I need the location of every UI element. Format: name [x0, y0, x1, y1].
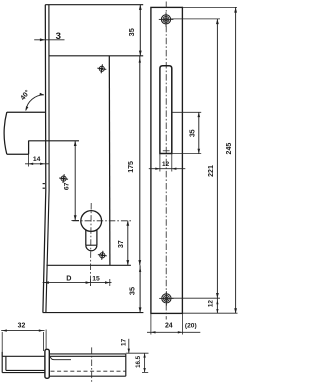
- 24 dim right extension: [181, 313, 183, 334]
- bottom view: case bottom edge: [49, 375, 126, 377]
- euro profile cylinder stem right: [96, 230, 98, 245]
- bottom view: bolt inner left edge: [5, 356, 7, 370]
- dimension 14 extension line: [28, 154, 30, 166]
- 40 degree arc arrow: [26, 95, 44, 111]
- svg-text:24: 24: [165, 323, 173, 330]
- dimension 37 line: [127, 221, 129, 266]
- svg-text:37: 37: [118, 240, 125, 248]
- dimension D/15 tick at case edge: [109, 279, 111, 286]
- dimension 35 slot line: [198, 112, 200, 153]
- swing bolt bottom edge: [7, 153, 29, 155]
- svg-text:12: 12: [162, 161, 170, 168]
- dimension 17 line: [128, 339, 130, 353]
- swing bolt top edge: [7, 111, 45, 113]
- left view: lock case top edge / extension: [49, 55, 144, 57]
- svg-text:35: 35: [190, 129, 197, 137]
- 32 dim right extension: [42, 332, 44, 351]
- slot centre tick: [163, 150, 170, 152]
- screw hole middle (case): [97, 250, 107, 260]
- 221 dim top extension: [171, 18, 220, 20]
- bottom view: bolt outer bottom edge: [2, 372, 45, 374]
- svg-text:175: 175: [128, 161, 135, 173]
- euro profile cylinder stem chord: [86, 244, 97, 246]
- left view: faceplate top edge / extension to 35 dim: [45, 4, 143, 6]
- left view: faceplate left edge: [43, 5, 46, 313]
- svg-text:15: 15: [92, 276, 100, 283]
- screw hole left (case): [59, 174, 69, 184]
- dimension 24 line: [147, 331, 200, 333]
- dimension 67 bottom tick: [71, 219, 79, 221]
- faceplate tick marks: [43, 183, 45, 185]
- dimension 12 right line: [216, 298, 218, 313]
- svg-text:16.5: 16.5: [135, 355, 142, 368]
- svg-text:40°: 40°: [19, 88, 32, 101]
- right view: bottom screw hole: [162, 294, 171, 303]
- svg-text:D: D: [66, 274, 71, 283]
- slot 35 dim top extension: [172, 111, 201, 113]
- 245 dim top extension: [182, 6, 237, 8]
- right view: faceplate outline: [151, 7, 183, 313]
- 32 dim left extension: [1, 332, 3, 356]
- svg-text:3: 3: [56, 31, 61, 42]
- cylinder horizontal centre line: [73, 220, 132, 222]
- left view: lock case bottom edge / extension to 37 dim: [46, 264, 130, 266]
- dimension 14 line: [25, 163, 50, 165]
- dimension 16.5 line: [144, 353, 146, 372]
- svg-text:245: 245: [226, 143, 233, 155]
- 24 dim left extension: [150, 313, 152, 334]
- svg-text:(20): (20): [185, 323, 197, 330]
- dimension 245 line: [235, 7, 237, 313]
- 245 dim bottom extension: [182, 312, 237, 314]
- swing bolt curved face: [4, 112, 7, 154]
- projection line faceplate to bar: [45, 330, 47, 350]
- bottom view: bolt inner bottom edge: [6, 369, 45, 371]
- euro profile cylinder circle: [81, 211, 102, 232]
- svg-text:67: 67: [64, 182, 71, 190]
- left view: faceplate right edge: [46, 5, 49, 313]
- left view: faceplate bottom edge / extension: [43, 312, 144, 314]
- svg-text:221: 221: [208, 165, 215, 177]
- dimension D/15 tick at cylinder axis: [89, 279, 91, 286]
- cylinder vertical centre line: [89, 203, 92, 287]
- svg-text:12: 12: [207, 300, 214, 308]
- dimension 3 (faceplate thickness) line: [34, 39, 64, 41]
- dimension 175 line: [139, 56, 141, 265]
- svg-text:14: 14: [33, 156, 41, 163]
- dimension 35 bottom line: [139, 265, 141, 312]
- right view: bolt slot cutout: [160, 66, 172, 154]
- dimension 12 slot extensions: [159, 154, 161, 172]
- bottom view: case right end: [125, 354, 127, 376]
- swing bolt step vertical: [28, 141, 30, 155]
- dimension 67 line: [74, 141, 76, 221]
- bottom view: bolt outer left edge: [1, 352, 3, 373]
- svg-text:35: 35: [127, 28, 136, 36]
- right view: top screw hole: [161, 15, 170, 24]
- bottom view: faceplate bar: [45, 349, 49, 378]
- bottom view: case top edge inner: [49, 355, 126, 357]
- dimension 35 top (vertical) line: [139, 5, 141, 56]
- 221 dim bottom extension: [171, 297, 220, 299]
- bottom view: bolt top edge: [2, 355, 45, 357]
- dimension D and 15 line: [43, 282, 112, 284]
- slot 35 dim bottom extension: [172, 153, 201, 155]
- dimension 221 line: [216, 19, 218, 298]
- bottom view: hidden edge (dashed): [51, 370, 126, 372]
- right view: vertical centre line: [165, 2, 167, 320]
- screw hole top (case): [97, 64, 107, 74]
- svg-text:17: 17: [120, 338, 127, 346]
- bottom view: centre line: [91, 347, 93, 383]
- 16.5 bottom extension: [142, 371, 148, 373]
- svg-text:35: 35: [128, 287, 137, 295]
- bottom view: case top edge outer: [49, 353, 126, 355]
- euro profile cylinder stem left: [85, 230, 87, 245]
- dimension 32 line: [1, 330, 44, 332]
- left view: lock case right edge: [108, 56, 111, 265]
- svg-text:32: 32: [18, 323, 26, 330]
- 17/16.5 top extension line: [126, 352, 149, 354]
- dimension 12 slot line: [149, 168, 186, 170]
- swing bolt step horizontal / 67 extension: [29, 140, 79, 142]
- euro profile cylinder stem cap: [86, 245, 97, 251]
- bottom view: case inner wall line: [50, 357, 71, 360]
